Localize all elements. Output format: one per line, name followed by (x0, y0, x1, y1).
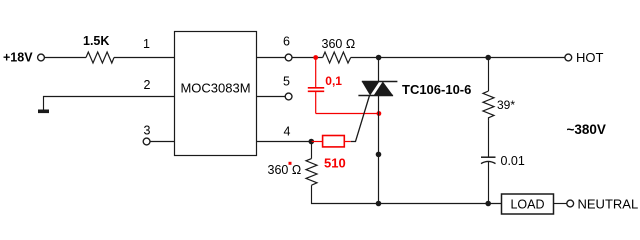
svg-text:MOC3083M: MOC3083M (180, 81, 250, 96)
terminal HOT (565, 54, 572, 61)
resistor R4 360 ohm bottom (311, 142, 313, 159)
junction dot MT1 rail (376, 201, 382, 207)
wire pin 6 stub (257, 57, 286, 59)
svg-text:0.01: 0.01 (501, 154, 525, 168)
wire R4 to bottom rail (312, 185, 502, 203)
svg-text:~380V: ~380V (567, 122, 606, 137)
terminal +18V (38, 54, 45, 61)
svg-text:HOT: HOT (576, 50, 604, 65)
svg-text:39*: 39* (497, 98, 515, 112)
wire pin 5 stub (257, 96, 286, 98)
terminal pin 5 (285, 93, 292, 100)
ground (38, 110, 49, 114)
capacitor C1 0,1 red (308, 58, 324, 114)
resistor R2 360 ohm top (323, 52, 351, 63)
resistor R1 1.5K (86, 52, 114, 63)
load box (502, 194, 554, 214)
junction triac top (376, 55, 382, 61)
svg-text:360 Ω: 360 Ω (268, 163, 302, 177)
wire load to neutral (554, 203, 567, 205)
wire red C1 to triac MT1 (316, 113, 380, 115)
terminal pin 6 (285, 54, 292, 61)
resistor R3 510 red (311, 141, 322, 143)
svg-text:5: 5 (283, 75, 290, 89)
wire pin 2 to ground (44, 97, 175, 111)
wire +18V to R1 (44, 57, 86, 59)
triac Q1 (358, 58, 397, 204)
svg-text:LOAD: LOAD (510, 197, 544, 211)
IC U1 MOC3083M (175, 32, 257, 156)
terminal NEUTRAL (567, 200, 574, 207)
wire pin 3 (150, 141, 174, 143)
wire pin 6 to R2 (292, 57, 323, 59)
wire pin 4 (257, 141, 312, 143)
svg-text:+18V: +18V (3, 51, 33, 65)
junction dot mid MT1 (376, 152, 382, 158)
terminal pin 3 (143, 138, 150, 145)
svg-text:360 Ω: 360 Ω (322, 37, 356, 51)
wire C2 to rail (488, 162, 490, 204)
wire R1 to pin1 (114, 57, 174, 59)
svg-text:1.5K: 1.5K (83, 34, 109, 48)
wire R2 to HOT (351, 57, 565, 59)
wire gate (351, 96, 370, 142)
capacitor C2 0.01 (481, 156, 496, 158)
svg-text:3: 3 (144, 124, 151, 138)
wire R5 to C2 (488, 121, 490, 157)
svg-text:0,1: 0,1 (325, 74, 342, 88)
svg-text:4: 4 (284, 125, 291, 139)
svg-text:510: 510 (324, 156, 346, 171)
svg-text:1: 1 (143, 37, 150, 51)
svg-text:TC106-10-6: TC106-10-6 (402, 82, 471, 97)
resistor R5 39* (488, 58, 490, 92)
svg-text:6: 6 (283, 35, 290, 49)
node red junction on MT1 line (377, 111, 382, 116)
svg-text:2: 2 (144, 78, 151, 92)
junction C2 rail (485, 201, 491, 207)
svg-text:NEUTRAL: NEUTRAL (578, 197, 639, 212)
junction pin4 node (309, 139, 315, 145)
node red junction on pin6 wire (313, 55, 318, 60)
junction 39 branch (485, 55, 491, 61)
node red dot on 360 label (289, 162, 292, 165)
